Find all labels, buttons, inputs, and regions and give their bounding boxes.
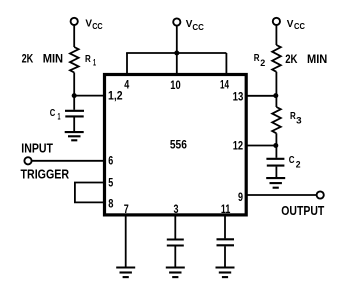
svg-text:5: 5 <box>108 176 113 190</box>
wire node D to C2 <box>275 146 277 158</box>
wire pin 3 capacitor to ground <box>174 247 176 268</box>
wire node A to C1 <box>73 96 75 110</box>
Vcc terminal (top) <box>173 18 180 25</box>
svg-text:9: 9 <box>238 190 243 204</box>
svg-text:2: 2 <box>260 58 265 68</box>
wire pin 9 to OUTPUT <box>247 194 317 196</box>
wire C2 to ground <box>275 167 277 179</box>
svg-text:C: C <box>50 108 56 119</box>
svg-text:6: 6 <box>108 153 113 167</box>
svg-text:3: 3 <box>174 202 179 216</box>
pin 14 stub wire <box>225 53 227 73</box>
wire Vcc to bus <box>176 26 178 53</box>
pin 11 wire <box>224 215 226 239</box>
pin 4 stub wire <box>126 53 128 73</box>
node A junction <box>72 93 77 98</box>
svg-text:4: 4 <box>124 78 129 92</box>
OUTPUT terminal <box>317 191 324 198</box>
label C1 <box>50 108 61 122</box>
svg-text:CC: CC <box>294 22 305 31</box>
Vcc terminal (left) <box>71 18 78 25</box>
wire pin 12 to node D <box>247 145 277 147</box>
svg-text:C: C <box>289 155 295 166</box>
Vcc label (right) <box>287 19 305 31</box>
svg-text:8: 8 <box>108 197 113 211</box>
wire R3 to node D <box>275 133 277 145</box>
node B junction (Vcc bus) <box>174 51 179 56</box>
Vcc bus wire (top) <box>126 52 226 54</box>
node D junction <box>273 143 278 148</box>
svg-text:CC: CC <box>192 23 204 32</box>
svg-text:11: 11 <box>221 202 231 216</box>
INPUT terminal <box>24 157 31 164</box>
ground (pin 7) <box>116 268 135 278</box>
wire C1 to ground <box>73 117 75 132</box>
pin 7 wire to ground <box>125 215 127 268</box>
IC U1 556 body <box>105 75 247 215</box>
svg-text:MIN: MIN <box>307 54 327 66</box>
svg-text:3: 3 <box>296 116 302 126</box>
svg-text:1,2: 1,2 <box>108 88 123 102</box>
svg-text:OUTPUT: OUTPUT <box>281 204 324 218</box>
Vcc label (left) <box>85 18 102 31</box>
label R3 <box>290 111 302 126</box>
svg-text:12: 12 <box>233 139 244 153</box>
capacitor C2 <box>266 159 284 166</box>
wire pin 11 capacitor to ground <box>224 246 226 267</box>
wire Vcc to R2 <box>275 25 277 45</box>
value label 2K MIN (right) <box>285 54 327 66</box>
pin 10 stub wire <box>176 53 178 73</box>
value label 2K MIN (left) <box>22 54 64 66</box>
ground (pin 3) <box>166 268 185 278</box>
node C junction <box>273 93 278 98</box>
decoupling capacitor (pin 3) <box>167 240 184 246</box>
svg-text:MIN: MIN <box>43 54 63 66</box>
ground (below C1) <box>65 132 84 140</box>
svg-text:7: 7 <box>124 202 129 216</box>
label C2 <box>289 155 301 169</box>
wire node C to R3 <box>275 96 277 107</box>
pin 3 wire <box>174 215 176 239</box>
resistor R1 <box>70 47 79 73</box>
decoupling capacitor (pin 11) <box>217 239 235 245</box>
wire Vcc to R1 <box>73 25 75 47</box>
wire R1 to node A <box>73 73 75 96</box>
svg-text:TRIGGER: TRIGGER <box>21 167 70 181</box>
svg-text:14: 14 <box>220 78 229 92</box>
wire node A to pin 1,2 <box>74 95 103 97</box>
label R1 <box>85 54 96 68</box>
wire pin 13 to node C <box>247 95 277 97</box>
svg-text:1: 1 <box>58 112 61 122</box>
wire INPUT to pin 6 <box>32 160 104 162</box>
svg-text:CC: CC <box>92 22 103 31</box>
label R2 <box>254 53 266 68</box>
Vcc label (top) <box>186 19 204 32</box>
ground (pin 11) <box>216 268 235 278</box>
resistor R2 <box>272 45 281 72</box>
svg-text:V: V <box>287 19 294 30</box>
svg-text:556: 556 <box>170 140 187 152</box>
svg-text:R: R <box>254 53 260 64</box>
Vcc terminal (right) <box>273 18 280 25</box>
capacitor C1 <box>65 111 84 117</box>
ground (below C2) <box>266 178 285 188</box>
svg-text:10: 10 <box>170 78 181 92</box>
wire R2 to node C <box>275 72 277 96</box>
wire pin 5 to pin 8 loop <box>75 183 104 203</box>
svg-text:INPUT: INPUT <box>21 142 53 156</box>
svg-text:2K: 2K <box>22 54 34 66</box>
svg-text:13: 13 <box>233 90 244 104</box>
resistor R3 <box>272 107 281 133</box>
svg-text:R: R <box>85 54 91 65</box>
svg-text:2: 2 <box>296 160 301 170</box>
svg-text:1: 1 <box>93 58 96 68</box>
svg-text:2K: 2K <box>285 54 298 66</box>
